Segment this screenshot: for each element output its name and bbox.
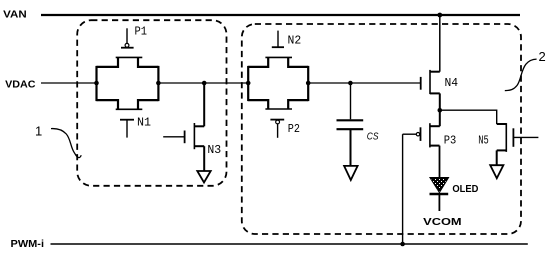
TG1 left rail — [95, 66, 97, 101]
svg-text:P2: P2 — [288, 122, 300, 136]
callout 1 leader squiggle — [51, 129, 81, 158]
transistor N4 — [421, 15, 440, 110]
gate terminal N2 — [272, 31, 284, 48]
transmission gate TG2 body (N2 over P2) — [248, 57, 308, 109]
TG1 right rail — [157, 66, 159, 101]
TG2 top channel bar (NMOS N2) — [265, 56, 292, 58]
svg-text:P1: P1 — [135, 25, 148, 39]
TG1 top channel bar (PMOS P1) — [116, 56, 143, 58]
gate terminal P1 — [121, 28, 134, 47]
N4 top step — [430, 71, 440, 73]
transistor P3 — [403, 110, 440, 147]
TG2 right rail — [307, 66, 309, 101]
svg-text:VDAC: VDAC — [5, 80, 35, 91]
wire P3 source to OLED — [439, 146, 441, 178]
block 2 dashed box — [242, 24, 521, 234]
N4 drain lead — [439, 15, 441, 72]
N4 channel bar — [429, 70, 431, 94]
svg-text:2: 2 — [539, 49, 546, 64]
capacitor CS — [337, 83, 364, 166]
ground below CS — [344, 166, 358, 180]
P3 top step — [430, 125, 440, 127]
svg-text:CS: CS — [367, 132, 379, 143]
N3 top step — [194, 125, 204, 127]
svg-text:N4: N4 — [445, 76, 459, 90]
svg-text:P3: P3 — [444, 133, 457, 147]
CS bottom plate — [337, 128, 364, 130]
transistor N3 — [163, 83, 204, 171]
ground below N3 — [197, 171, 210, 183]
ground below N5 — [490, 165, 503, 178]
block 1 dashed box — [77, 20, 226, 186]
svg-text:N5: N5 — [478, 133, 489, 147]
svg-text:N2: N2 — [288, 34, 302, 48]
N3 gate bar — [184, 131, 186, 144]
node dot TG1 right — [156, 81, 161, 86]
gate terminal P2 — [270, 120, 284, 138]
N3 gate lead — [163, 136, 184, 138]
N3 drain lead — [203, 83, 205, 126]
CS top wire — [350, 83, 352, 119]
svg-text:VCOM: VCOM — [423, 217, 461, 228]
svg-text:N1: N1 — [137, 115, 151, 129]
N4 source lead — [439, 93, 441, 110]
node dot N4 source / P3 drain / N5 junction — [438, 108, 443, 113]
N4 bottom step — [430, 92, 440, 94]
N3 bottom step — [194, 145, 204, 147]
gate terminal N1 — [120, 120, 134, 138]
transistor N5 — [497, 123, 539, 165]
node dot TG2 left — [246, 81, 251, 86]
wire TG1 to TG2 — [158, 82, 248, 84]
N5 top step — [497, 123, 507, 125]
wire VAN rail — [41, 14, 520, 16]
wire PWM-i rail — [51, 243, 528, 245]
TG1 bottom channel bar (NMOS N1) — [116, 108, 143, 110]
wire junction to N5 drain — [440, 110, 497, 124]
node dot VAN / N4 drain — [437, 13, 442, 18]
N4 gate bar — [420, 77, 422, 90]
node dot TG1 left / VDAC — [94, 81, 99, 86]
N5 gate bar — [512, 128, 514, 147]
node dot N3 drain junction — [202, 81, 207, 86]
wire VDAC input — [41, 82, 97, 84]
callout 2 leader squiggle — [505, 59, 537, 91]
CS bottom wire — [350, 129, 352, 166]
P3 gate lead — [403, 133, 417, 135]
TG2 bottom channel bar (PMOS P2) — [265, 108, 292, 110]
TG1 top legs and arms — [97, 57, 159, 67]
N5 bottom step — [497, 149, 507, 151]
svg-text:PWM-i: PWM-i — [11, 239, 45, 250]
P3 channel bar — [429, 123, 431, 147]
CS top plate — [337, 119, 364, 121]
P3 drain lead — [439, 110, 441, 126]
svg-text:N3: N3 — [207, 143, 221, 157]
TG2 left rail — [247, 66, 249, 101]
N3 channel bar — [193, 123, 195, 149]
TG2 bottom legs and arms — [248, 100, 308, 109]
node dot TG2 right — [306, 81, 311, 86]
N5 gate lead — [513, 136, 538, 138]
wire P3 gate to PWM-i — [402, 134, 404, 244]
transmission gate TG1 body (P1 over N1) — [97, 57, 159, 109]
P3 bottom step — [430, 145, 440, 147]
svg-text:1: 1 — [35, 124, 42, 139]
P3 gate bar — [420, 127, 422, 141]
TG2 top legs and arms — [248, 57, 308, 67]
P3 gate bubble — [416, 133, 419, 136]
diode OLED — [430, 178, 449, 212]
N5 source lead — [496, 150, 498, 165]
TG1 bottom legs and arms — [97, 100, 159, 109]
node dot CS junction — [348, 81, 353, 86]
svg-text:VAN: VAN — [3, 9, 27, 20]
N5 channel bar — [505, 123, 507, 152]
node dot PWM-i junction — [400, 242, 405, 247]
svg-text:OLED: OLED — [452, 184, 478, 195]
wire TG2 to N4 gate — [308, 82, 420, 84]
N3 source lead — [203, 146, 205, 171]
